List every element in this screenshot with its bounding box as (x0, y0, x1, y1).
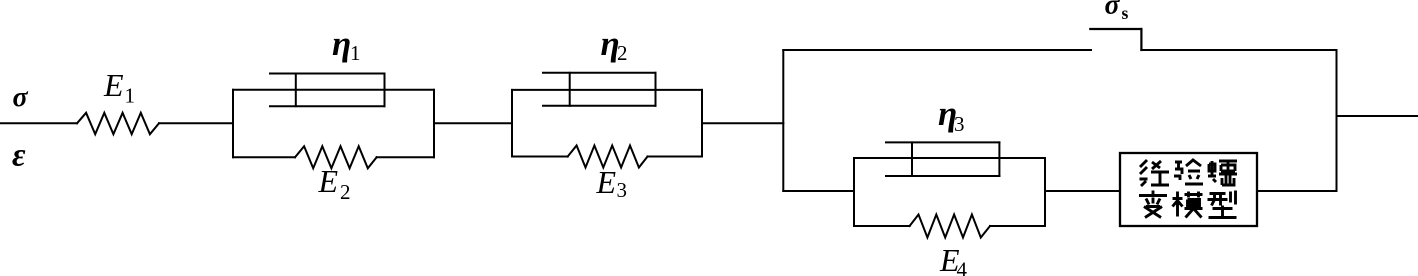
svg-text:3: 3 (617, 178, 628, 202)
svg-text:ε: ε (12, 138, 26, 174)
text: hanzi bian (1139, 191, 1167, 218)
text: hanzi mo (1173, 192, 1203, 218)
box: empirical creep model (jingyan ruchang moxing) (1120, 153, 1257, 226)
wire Kelvin1 to Kelvin2 (434, 122, 512, 124)
text: hanzi xing (1208, 191, 1237, 218)
svg-text:E: E (318, 163, 339, 199)
node: Kelvin unit 1 left edge (232, 90, 234, 158)
text: hanzi yan (1174, 160, 1203, 184)
spring E1 (77, 113, 159, 134)
svg-text:σ: σ (1105, 0, 1121, 21)
wire input to spring E1 (0, 122, 77, 124)
dashpot eta3 (886, 142, 999, 176)
svg-text:4: 4 (957, 258, 968, 276)
wire Kelvin3 to creep model box (1045, 190, 1120, 192)
spring E3 (568, 146, 648, 168)
svg-text:1: 1 (350, 41, 361, 65)
wire Kelvin3 bottom branch right (990, 225, 1045, 227)
node: Kelvin unit 1 right edge (433, 90, 435, 158)
wire creep model box to right edge (1257, 190, 1337, 192)
svg-text:1: 1 (125, 84, 136, 108)
friction slider sigma_s (1090, 29, 1141, 50)
dashpot eta2 (543, 73, 656, 106)
node: parallel block left edge (782, 50, 784, 191)
wire Kelvin3 top branch (854, 157, 1045, 159)
wire output (1337, 115, 1418, 117)
wire spring E1 to Kelvin unit 1 (159, 122, 233, 124)
wire Kelvin2 top branch (512, 89, 702, 91)
wire Kelvin2 bottom branch right (648, 156, 703, 158)
wire Kelvin3 bottom branch left (854, 225, 910, 227)
svg-text:2: 2 (617, 41, 628, 65)
wire lower branch to Kelvin3 (783, 190, 854, 192)
spring E4 (910, 215, 990, 238)
node: Kelvin unit 3 left edge (853, 158, 855, 226)
wire Kelvin1 bottom branch left (233, 156, 295, 158)
wire Kelvin2 to parallel block (702, 122, 783, 124)
svg-text:2: 2 (340, 180, 351, 204)
svg-text:η: η (332, 24, 351, 63)
wire top rail left of slider (783, 49, 1091, 51)
dashpot eta1 (270, 74, 385, 107)
node: parallel block right edge (1336, 50, 1338, 191)
node: Kelvin unit 2 left edge (511, 90, 513, 157)
wire Kelvin1 top branch (233, 89, 434, 91)
svg-text:E: E (596, 164, 617, 200)
text: hanzi jing (of creep model label) (1139, 160, 1237, 218)
svg-text:s: s (1122, 3, 1129, 23)
node: Kelvin unit 3 right edge (1044, 158, 1046, 226)
svg-text:3: 3 (954, 112, 965, 136)
wire top rail right of slider (1141, 49, 1336, 51)
text: hanzi ru (1208, 161, 1237, 185)
spring E2 (295, 146, 377, 168)
wire Kelvin1 bottom branch right (377, 156, 434, 158)
wire Kelvin2 bottom branch left (512, 156, 568, 158)
svg-text:σ: σ (13, 82, 29, 113)
svg-text:E: E (103, 67, 124, 103)
node: Kelvin unit 2 right edge (701, 90, 703, 157)
